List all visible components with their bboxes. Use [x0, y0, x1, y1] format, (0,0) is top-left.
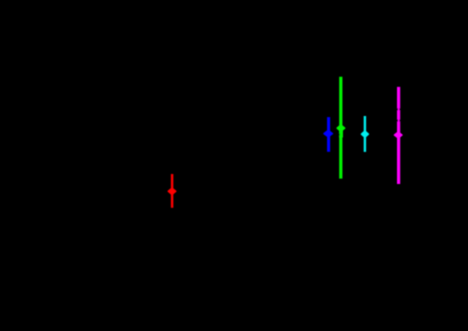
magenta diamond marker P5 [395, 132, 402, 138]
magenta bar pinch 2 right [399, 119, 400, 121]
green bar dark notch [339, 133, 340, 135]
cyan error bar E4 [364, 116, 366, 152]
green error bar E3 [339, 77, 342, 179]
red error bar E1 [171, 174, 173, 208]
green error bar lower wide segment [339, 128, 343, 138]
green diamond marker P3 [337, 125, 344, 131]
red diamond marker P1 [168, 188, 175, 194]
magenta bar pinch 1 left [397, 108, 398, 110]
magenta bar pinch 2 left [397, 119, 398, 121]
magenta error bar E5 [397, 87, 400, 184]
blue error bar E2 [327, 117, 330, 152]
cyan diamond marker P4 [362, 131, 369, 137]
magenta bar pinch 1 right [399, 108, 400, 110]
blue diamond marker P2 [324, 130, 332, 136]
